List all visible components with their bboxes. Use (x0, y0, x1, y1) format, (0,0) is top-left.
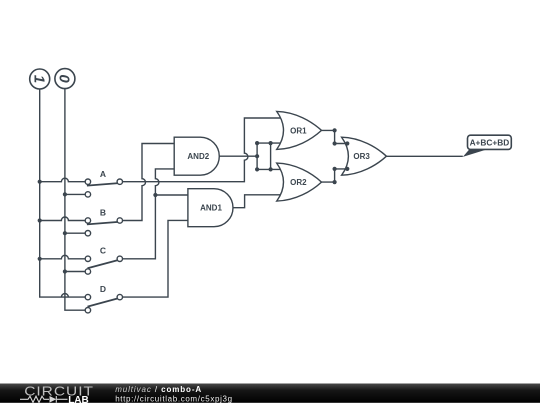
svg-text:http://circuitlab.com/c5xpj3g: http://circuitlab.com/c5xpj3g (115, 394, 233, 403)
svg-text:D: D (100, 284, 106, 294)
svg-text:0: 0 (56, 74, 73, 83)
svg-text:A: A (100, 169, 106, 179)
svg-text:AND2: AND2 (187, 152, 209, 161)
svg-text:1: 1 (31, 75, 48, 83)
svg-text:LAB: LAB (68, 395, 89, 405)
svg-text:A+BC+BD: A+BC+BD (470, 137, 510, 147)
svg-text:OR2: OR2 (290, 178, 307, 187)
svg-text:AND1: AND1 (200, 204, 222, 213)
svg-text:OR3: OR3 (353, 152, 370, 161)
svg-text:C: C (100, 246, 106, 256)
svg-text:B: B (100, 207, 106, 217)
svg-text:OR1: OR1 (290, 126, 307, 135)
svg-text:multivac / combo-A: multivac / combo-A (115, 385, 202, 394)
